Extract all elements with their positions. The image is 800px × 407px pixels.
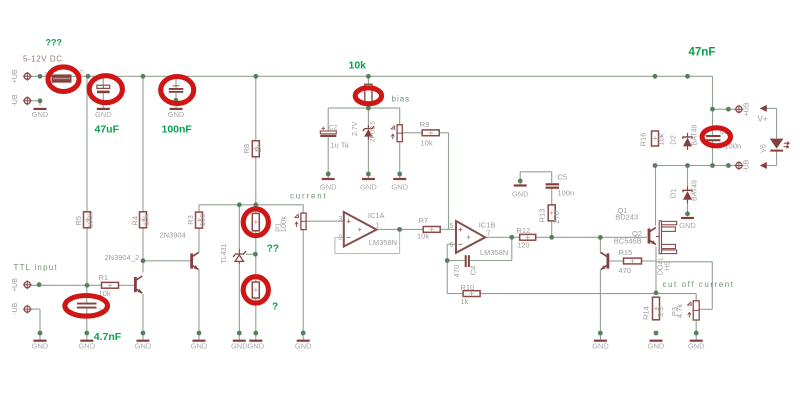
wire pin6 feedback rail	[446, 244, 448, 293]
resistor R4 10k	[140, 212, 147, 228]
svg-text:R1: R1	[99, 273, 109, 282]
resistor R1 10k	[102, 282, 119, 288]
svg-text:V+: V+	[758, 115, 768, 124]
junction	[710, 107, 715, 112]
wire sense to P3	[695, 294, 697, 301]
svg-text:LM358N: LM358N	[369, 238, 397, 247]
svg-text:100n: 100n	[558, 189, 575, 198]
wire bus to C47u	[102, 76, 104, 85]
wire T1 collector to T2 base	[143, 260, 190, 262]
wire bus to R8	[255, 76, 257, 140]
svg-text:-UB: -UB	[744, 159, 751, 171]
wire IC1B pin6 stub	[447, 243, 456, 245]
svg-text:1k: 1k	[461, 297, 469, 306]
svg-text:100k: 100k	[85, 212, 94, 229]
svg-text:2N3904: 2N3904	[160, 230, 186, 239]
svg-text:+UB: +UB	[744, 102, 751, 116]
transistor T1 2N3904_2	[134, 276, 142, 293]
svg-text:D1: D1	[669, 189, 678, 199]
svg-text:10k: 10k	[349, 60, 367, 72]
junction	[237, 202, 242, 207]
wire T1 emitter to GND	[142, 294, 144, 340]
wire IC1B out to R12	[485, 236, 520, 238]
LED V5	[770, 139, 790, 152]
red circle on bias pot P2	[355, 88, 381, 104]
transistor Q1 BD243 package	[656, 221, 677, 254]
junction	[301, 331, 306, 336]
wire R10 to sense node	[480, 293, 696, 295]
svg-text:-UB: -UB	[12, 302, 19, 314]
junction	[710, 163, 715, 168]
ground	[32, 340, 49, 351]
junction	[174, 74, 179, 79]
svg-text:R14: R14	[642, 306, 651, 320]
junction	[38, 331, 43, 336]
resistor R13 270	[548, 205, 555, 221]
red circle on C6	[702, 128, 730, 146]
wire V+ to LED	[776, 108, 778, 138]
wire R15 to Q1 emitter node	[642, 260, 657, 262]
wire -UB pad lead	[31, 100, 41, 102]
svg-text:GND: GND	[360, 183, 377, 192]
svg-text:IC1B: IC1B	[479, 220, 496, 229]
junction	[38, 74, 43, 79]
junction	[253, 202, 258, 207]
junction	[654, 290, 659, 295]
transistor T3	[601, 252, 610, 269]
svg-text:R9: R9	[420, 120, 430, 129]
svg-text:470: 470	[452, 265, 461, 278]
wire P2 to zener	[367, 104, 369, 128]
svg-text:GND: GND	[135, 342, 152, 351]
wire C5 to R13	[551, 188, 553, 205]
svg-text:GND: GND	[320, 183, 337, 192]
svg-text:R15: R15	[619, 248, 633, 257]
wire C6 to -UB row	[712, 140, 714, 166]
junction	[141, 258, 146, 263]
svg-text:100nF: 100nF	[162, 123, 193, 135]
junction	[85, 283, 90, 288]
svg-text:TTL input: TTL input	[14, 263, 58, 272]
junction	[38, 98, 43, 103]
svg-text:GND: GND	[191, 342, 208, 351]
junction	[326, 172, 331, 177]
svg-text:3: 3	[338, 216, 342, 223]
svg-text:R3: R3	[186, 215, 195, 225]
junction	[685, 74, 690, 79]
wire C100n to GND	[175, 93, 177, 108]
ground	[295, 340, 312, 351]
wire V- arrow	[767, 165, 777, 167]
svg-text:10k: 10k	[421, 138, 433, 147]
wire R12 to Q2 base	[536, 236, 647, 238]
V+ connector arrow	[760, 105, 767, 112]
wire to C5	[551, 172, 553, 183]
junction	[598, 235, 603, 240]
svg-text:HS: HS	[665, 261, 672, 271]
svg-text:120: 120	[517, 240, 530, 249]
svg-text:current: current	[290, 191, 328, 200]
wire C2 to GND	[327, 137, 329, 178]
capacitor C1 input 4.7nF (circled)	[77, 303, 97, 309]
svg-text:GND: GND	[32, 342, 49, 351]
resistor R15 470	[624, 258, 642, 264]
wire node to T3 collector	[599, 237, 601, 253]
svg-text:2.7V: 2.7V	[352, 121, 359, 136]
wire T3 emitter to GND	[599, 270, 601, 340]
svg-text:GND: GND	[95, 110, 112, 119]
wire current to TL431	[238, 205, 240, 249]
svg-text:R10: R10	[461, 283, 475, 292]
wire zener to GND	[367, 136, 369, 178]
wire current to P1	[302, 205, 304, 213]
wire P2 wiper to R9	[402, 132, 421, 134]
svg-text:R4: R4	[130, 216, 139, 226]
wire TL431 to GND	[238, 264, 240, 339]
TL431 shunt reference	[233, 249, 246, 265]
svg-text:2N3904_2: 2N3904_2	[105, 253, 140, 262]
wire R1 to T1 base	[119, 284, 135, 286]
wire IC1A feedback left	[334, 238, 336, 254]
red circle on L1	[48, 67, 79, 92]
capacitor C3 100nF	[169, 86, 184, 93]
wire GND stub	[519, 172, 521, 185]
capacitor C4 470	[465, 255, 470, 267]
svg-text:10k: 10k	[142, 214, 151, 226]
svg-text:cut off current: cut off current	[663, 280, 735, 289]
wire P3 to GND	[695, 320, 697, 340]
svg-text:R12: R12	[517, 226, 531, 235]
junction	[685, 163, 690, 168]
diode D1 BAT49	[683, 186, 692, 203]
wire -UB pad lead	[31, 308, 40, 310]
wire input node to C1	[86, 285, 88, 302]
resistor R3 100	[196, 212, 203, 228]
resistor divider top	[252, 213, 259, 230]
junction	[654, 331, 659, 336]
wire R4 to T1 collector	[142, 227, 144, 273]
junction	[549, 235, 554, 240]
wire IC1A feedback bottom	[335, 253, 400, 255]
red circle on 47uF cap	[89, 76, 122, 103]
wire divider to GND	[255, 298, 257, 340]
resistor R8 1k	[252, 141, 259, 157]
junction	[509, 235, 514, 240]
wire T3 base to R15	[609, 260, 624, 262]
capacitor C1 47uF polarized	[97, 85, 110, 93]
svg-text:10k: 10k	[417, 231, 429, 240]
wire to R10	[447, 293, 463, 295]
wire P2b to GND	[399, 142, 401, 178]
svg-text:???: ???	[46, 38, 63, 48]
junction	[366, 106, 371, 111]
svg-text:7: 7	[487, 230, 491, 237]
wire C5 to GND	[520, 171, 552, 173]
wire R9 output	[440, 132, 449, 134]
wire current net	[199, 204, 304, 206]
junction	[726, 107, 731, 112]
ground	[391, 178, 408, 192]
ground	[95, 108, 112, 119]
pad -UB TTL input	[23, 305, 32, 314]
svg-text:GND: GND	[295, 342, 312, 351]
wire V+ arrow	[767, 107, 777, 109]
junction	[518, 179, 523, 184]
wire bias to P2b	[399, 108, 401, 125]
wire Q1 emitter to sense node	[655, 247, 657, 294]
wire D1 to GND	[687, 200, 689, 216]
ground	[32, 108, 49, 119]
svg-text:R5: R5	[74, 216, 83, 226]
ground	[360, 178, 377, 192]
junction	[397, 227, 402, 232]
potentiometer P2 bias	[365, 84, 372, 104]
zener diode D3 ZPD2.7	[363, 125, 374, 140]
junction	[397, 172, 402, 177]
pad -UB supply	[23, 96, 32, 105]
junction	[37, 282, 42, 287]
svg-text:+UB: +UB	[12, 278, 19, 292]
ground	[688, 340, 705, 351]
wire R5 to input node	[86, 227, 88, 286]
svg-text:3.3: 3.3	[656, 307, 665, 317]
wire P1 to GND	[302, 230, 304, 340]
resistor divider bottom	[252, 282, 259, 298]
wire divider mid	[255, 231, 257, 282]
wire IC1A pin2 stub	[335, 237, 344, 239]
svg-text:D2: D2	[669, 135, 678, 145]
junction	[237, 331, 242, 336]
wire bus to R4	[142, 76, 144, 213]
junction	[174, 98, 179, 103]
junction	[197, 331, 202, 336]
svg-text:R16: R16	[639, 133, 648, 147]
ground	[191, 340, 208, 351]
wire output to C4	[511, 237, 513, 260]
resistor R10 1k	[463, 291, 480, 297]
wire R13 to node	[551, 222, 553, 238]
transistor Q2 BC546B	[648, 227, 656, 244]
svg-text:??: ??	[267, 244, 279, 255]
wire R7 to IC1B pin5	[440, 228, 456, 230]
ground	[231, 340, 248, 351]
svg-text:R13: R13	[538, 209, 547, 223]
resistor R16 10k	[652, 131, 659, 146]
svg-text:100: 100	[198, 214, 207, 227]
wire R9 to IC1B pin5	[448, 133, 450, 230]
red circle on divider resistor top	[243, 209, 268, 236]
resistor R14 3.3	[653, 297, 660, 320]
svg-text:GND: GND	[592, 342, 609, 351]
svg-text:DO4L: DO4L	[658, 257, 665, 275]
wire bus to P2	[367, 76, 369, 84]
ground	[247, 340, 264, 351]
svg-text:5-12V DC: 5-12V DC	[23, 54, 63, 63]
wire TTL input to R1	[31, 284, 102, 286]
wire C4 to output	[470, 260, 512, 262]
junction	[86, 74, 91, 79]
wire LD node to Q2 collector	[655, 166, 657, 226]
wire -UB to GND	[39, 309, 41, 340]
svg-text:?: ?	[272, 302, 278, 313]
svg-text:GND: GND	[247, 342, 264, 351]
wire -UB output row	[655, 165, 736, 167]
resistor R12 120	[520, 234, 536, 240]
junction	[445, 258, 450, 263]
svg-text:C2: C2	[329, 125, 338, 132]
pad +UB TTL input	[23, 280, 32, 289]
capacitor C2 1uF tantalum	[320, 127, 336, 137]
svg-text:47nF: 47nF	[689, 47, 716, 59]
resistor R5 100k	[84, 212, 91, 228]
ground	[168, 108, 185, 119]
wire +UB to L1	[31, 75, 53, 77]
svg-text:47uF: 47uF	[95, 123, 120, 135]
svg-text:5: 5	[449, 223, 453, 230]
svg-text:ZPD2.5: ZPD2.5	[369, 120, 376, 142]
junction	[141, 74, 146, 79]
svg-text:1: 1	[376, 223, 380, 230]
wire R3 to T2 collector	[198, 228, 200, 253]
ground	[320, 178, 337, 192]
inductor L1	[52, 75, 71, 82]
wire TL431 ref	[246, 253, 256, 255]
wire bias node	[328, 107, 400, 109]
svg-text:4.7nF: 4.7nF	[94, 331, 122, 343]
capacitor C5 100n	[546, 183, 560, 189]
potentiometer P1 100k	[295, 213, 306, 230]
potentiometer P2b 10k	[391, 125, 402, 142]
wire +UB output row	[713, 108, 736, 110]
svg-text:GND: GND	[32, 110, 49, 119]
pad +UB output	[735, 105, 744, 114]
wire bus corner to C6	[712, 76, 714, 135]
svg-text:100k: 100k	[279, 216, 288, 233]
ground	[512, 184, 529, 198]
wire Q1 emitter	[656, 261, 712, 263]
svg-text:TL431: TL431	[221, 243, 228, 263]
junction	[685, 211, 690, 216]
junction	[84, 331, 89, 336]
wire to C4	[447, 260, 464, 262]
pad -UB output	[735, 161, 744, 170]
wire IC1A feedback right	[399, 229, 401, 253]
svg-text:6: 6	[449, 242, 453, 249]
svg-text:270: 270	[552, 211, 561, 224]
wire emitter node down	[711, 262, 713, 310]
svg-text:GND: GND	[679, 221, 696, 230]
V- connector arrow	[760, 162, 767, 169]
svg-text:R7: R7	[419, 216, 429, 225]
svg-text:GND: GND	[168, 110, 185, 119]
wire P1 wiper to IC1A pin3	[306, 220, 344, 222]
svg-text:GND: GND	[391, 183, 408, 192]
junction	[253, 252, 258, 257]
svg-text:1k: 1k	[254, 144, 263, 152]
junction	[253, 74, 258, 79]
svg-text:C4: C4	[469, 266, 478, 276]
svg-text:GND: GND	[688, 342, 705, 351]
junction	[141, 331, 146, 336]
wire C1 to GND	[86, 308, 88, 339]
junction	[366, 172, 371, 177]
svg-text:+UB: +UB	[12, 69, 19, 83]
op-amp IC1B LM358N	[456, 221, 485, 253]
wire -UB to GND	[39, 101, 41, 106]
pad +UB supply	[23, 72, 32, 81]
svg-text:1u Ta: 1u Ta	[331, 140, 350, 149]
svg-text:BAT49: BAT49	[692, 124, 699, 145]
wire bias to C2	[327, 108, 329, 131]
ground	[135, 340, 152, 351]
wire top supply bus	[71, 75, 713, 77]
svg-text:BC546B: BC546B	[614, 236, 642, 245]
capacitor C6 100n (circled)	[706, 135, 721, 141]
junction	[694, 331, 699, 336]
svg-text:R8: R8	[242, 144, 251, 154]
wire P3 wiper	[699, 308, 712, 310]
potentiometer P3 4.7k	[688, 301, 700, 320]
wire to divider	[255, 205, 257, 214]
resistor R7 10k	[423, 227, 440, 233]
ground	[648, 340, 665, 351]
svg-text:-UB: -UB	[12, 94, 19, 106]
svg-text:GND: GND	[648, 342, 665, 351]
svg-text:BAT49: BAT49	[692, 180, 699, 201]
junction	[653, 163, 658, 168]
svg-text:GND: GND	[231, 342, 248, 351]
wire IC1A out to R7	[377, 228, 424, 230]
svg-text:2: 2	[338, 234, 342, 241]
svg-text:bias: bias	[392, 95, 411, 104]
junction	[598, 331, 603, 336]
wire LD node to D1	[687, 166, 689, 189]
wire T2 emitter to GND	[198, 270, 200, 340]
wire bus to C100n	[175, 76, 177, 88]
svg-text:470: 470	[619, 266, 632, 275]
wire C47u to GND	[102, 93, 104, 108]
red circle on 100nF cap	[161, 77, 194, 104]
ground	[78, 340, 95, 351]
svg-text:IC1A: IC1A	[368, 211, 385, 220]
svg-text:BD243: BD243	[615, 213, 638, 222]
wire LED to V-	[776, 150, 778, 165]
diode D2 BAT49	[683, 133, 692, 150]
junction	[253, 331, 258, 336]
red circle on input cap	[65, 296, 108, 317]
ground	[592, 340, 609, 351]
svg-text:V5: V5	[761, 144, 768, 153]
junction	[726, 163, 731, 168]
svg-text:10k: 10k	[657, 133, 666, 145]
svg-text:C5: C5	[558, 173, 568, 182]
resistor R9 10k	[422, 130, 439, 136]
wire R8 to current net	[255, 157, 257, 205]
junction	[366, 74, 371, 79]
red circle on divider resistor bottom	[243, 277, 268, 303]
svg-text:LM358N: LM358N	[480, 248, 508, 257]
wire current to R3	[198, 205, 200, 213]
svg-text:GND: GND	[512, 190, 529, 199]
transistor T2 2N3904	[190, 252, 198, 269]
wire bus to R5	[86, 76, 88, 213]
junction	[653, 74, 658, 79]
op-amp IC1A LM358N	[344, 212, 377, 247]
svg-text:4.7k: 4.7k	[675, 304, 684, 318]
ground	[679, 217, 696, 230]
